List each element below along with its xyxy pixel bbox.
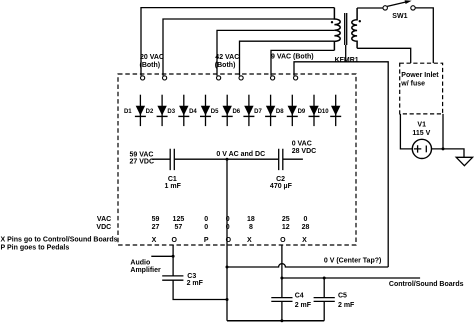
svg-text:1 mF: 1 mF bbox=[165, 183, 182, 190]
terminal 2 bbox=[163, 76, 167, 80]
wire tap4 42VAC right bbox=[240, 41, 335, 75]
junction dot C3 bottom bbox=[226, 298, 229, 301]
svg-text:0: 0 bbox=[204, 216, 208, 223]
svg-text:SW1: SW1 bbox=[392, 13, 407, 20]
wire power inlet to V1 left bbox=[400, 114, 412, 149]
capacitor C3 bbox=[162, 276, 183, 280]
wire control boards rail bbox=[282, 277, 420, 279]
switch SW1 lever arrowhead bbox=[405, 0, 412, 4]
svg-text:(Both): (Both) bbox=[140, 62, 161, 69]
svg-text:Amplifier: Amplifier bbox=[130, 267, 161, 274]
wire switch to power inlet bbox=[415, 8, 433, 63]
transformer T1 secondary polarity dot bbox=[331, 21, 333, 23]
svg-text:C4: C4 bbox=[295, 293, 304, 300]
wire V1 to ground bbox=[432, 149, 465, 157]
svg-text:470 µF: 470 µF bbox=[270, 183, 293, 190]
svg-text:0 V (Center Tap?): 0 V (Center Tap?) bbox=[324, 258, 381, 265]
svg-text:C3: C3 bbox=[187, 273, 196, 280]
junction dot 0V node bbox=[226, 158, 229, 161]
svg-text:P Pin goes to Pedals: P Pin goes to Pedals bbox=[1, 245, 70, 252]
svg-text:O: O bbox=[226, 237, 232, 244]
svg-text:D8: D8 bbox=[276, 109, 284, 115]
source V1 plus sign bbox=[414, 145, 421, 152]
svg-text:0: 0 bbox=[304, 216, 308, 223]
svg-text:VAC: VAC bbox=[97, 216, 111, 223]
wire C3 bottom to center vertical bbox=[173, 280, 227, 299]
wire 0V center tap rail with hop bbox=[227, 264, 388, 267]
svg-text:27 VDC: 27 VDC bbox=[130, 158, 155, 165]
svg-text:0 VAC: 0 VAC bbox=[292, 141, 312, 148]
terminal 5 bbox=[271, 76, 275, 80]
main dashed box bbox=[118, 74, 356, 245]
svg-text:2 mF: 2 mF bbox=[187, 280, 204, 287]
svg-text:0: 0 bbox=[204, 224, 208, 231]
junction dot bottom rail bbox=[280, 319, 283, 322]
wire C4 bottom bbox=[281, 301, 283, 320]
diode D2 bbox=[146, 95, 168, 126]
diode D10 bbox=[318, 95, 342, 126]
svg-text:P: P bbox=[204, 237, 209, 244]
diode D4 bbox=[189, 95, 211, 126]
svg-text:VDC: VDC bbox=[96, 224, 111, 231]
wire bottom rail bbox=[227, 320, 324, 322]
svg-text:KFMR1: KFMR1 bbox=[335, 57, 359, 64]
ground symbol bbox=[456, 157, 472, 165]
svg-text:0: 0 bbox=[226, 224, 230, 231]
diode D5 bbox=[211, 95, 233, 126]
transformer T1 secondary winding bbox=[334, 8, 340, 51]
junction dot V1 right bbox=[442, 147, 445, 150]
diode D6 bbox=[232, 95, 254, 126]
wire C5 top bbox=[323, 278, 325, 298]
svg-text:C1: C1 bbox=[168, 176, 177, 183]
svg-text:2 mF: 2 mF bbox=[295, 302, 312, 309]
svg-text:0 V AC and DC: 0 V AC and DC bbox=[216, 151, 265, 158]
wire audio amplifier stub bbox=[151, 255, 173, 257]
svg-text:D9: D9 bbox=[298, 109, 306, 115]
svg-text:D10: D10 bbox=[318, 109, 330, 115]
junction dot audio stub bbox=[172, 255, 175, 258]
svg-text:w/ fuse: w/ fuse bbox=[400, 80, 425, 87]
svg-text:D2: D2 bbox=[146, 109, 154, 115]
svg-text:X: X bbox=[302, 237, 307, 244]
diode D7 bbox=[254, 95, 276, 126]
svg-text:59: 59 bbox=[152, 216, 160, 223]
diode D9 bbox=[298, 95, 320, 126]
svg-text:8: 8 bbox=[249, 224, 253, 231]
svg-text:42 VAC: 42 VAC bbox=[215, 54, 239, 61]
wire tap1 20VAC left bbox=[141, 8, 334, 76]
svg-text:20 VAC: 20 VAC bbox=[140, 54, 164, 61]
svg-text:Control/Sound Boards: Control/Sound Boards bbox=[389, 281, 464, 288]
capacitor C1 bbox=[170, 149, 174, 170]
svg-text:V1: V1 bbox=[417, 122, 426, 129]
power inlet dashed box bbox=[400, 63, 443, 114]
svg-text:X: X bbox=[247, 237, 252, 244]
terminal 3 bbox=[217, 76, 221, 80]
terminal 6 bbox=[294, 76, 298, 80]
wire tap3 42VAC left bbox=[217, 30, 334, 75]
svg-text:28: 28 bbox=[302, 224, 310, 231]
svg-text:C5: C5 bbox=[338, 293, 347, 300]
svg-text:9 VAC (Both): 9 VAC (Both) bbox=[271, 53, 314, 60]
svg-text:27: 27 bbox=[152, 224, 160, 231]
svg-text:Power Inlet: Power Inlet bbox=[401, 72, 439, 79]
svg-text:O: O bbox=[280, 237, 286, 244]
svg-text:D1: D1 bbox=[124, 109, 132, 115]
transformer T1 primary winding bbox=[352, 8, 357, 48]
svg-text:(Both): (Both) bbox=[215, 62, 236, 69]
svg-text:C2: C2 bbox=[276, 176, 285, 183]
terminal 4 bbox=[239, 76, 243, 80]
transformer T1 core bbox=[345, 13, 347, 45]
wire primary bottom to power inlet bbox=[357, 48, 411, 63]
diode D8 bbox=[276, 95, 298, 126]
svg-text:125: 125 bbox=[173, 216, 185, 223]
svg-text:X: X bbox=[152, 237, 157, 244]
svg-text:O: O bbox=[171, 237, 177, 244]
svg-text:D5: D5 bbox=[211, 109, 219, 115]
wire tap5 9VAC left bbox=[271, 50, 334, 75]
svg-text:D4: D4 bbox=[189, 109, 197, 115]
wire 59VAC node to C1 bbox=[152, 158, 171, 160]
svg-text:2 mF: 2 mF bbox=[338, 302, 355, 309]
wire tap6 center-tap net bbox=[294, 62, 388, 267]
source V1 bar bbox=[425, 146, 427, 153]
capacitor C2 bbox=[279, 149, 283, 170]
svg-text:28 VDC: 28 VDC bbox=[292, 148, 317, 155]
svg-text:X Pins go to Control/Sound Boa: X Pins go to Control/Sound Boards bbox=[1, 236, 118, 243]
svg-text:57: 57 bbox=[175, 224, 183, 231]
wire C5 bottom bbox=[323, 301, 325, 320]
wire C1 to C2 bbox=[174, 158, 278, 160]
wire O-terminal to C3 bbox=[172, 245, 174, 276]
svg-text:Audio: Audio bbox=[130, 259, 150, 266]
svg-text:12: 12 bbox=[282, 224, 290, 231]
wire center 0V vertical bbox=[226, 159, 228, 321]
transformer T1 primary polarity dot bbox=[359, 20, 361, 22]
svg-text:D3: D3 bbox=[167, 109, 175, 115]
svg-text:0: 0 bbox=[226, 216, 230, 223]
diode D1 bbox=[124, 95, 146, 126]
transformer T1 center tap lead bbox=[345, 45, 347, 62]
switch SW1 lever bbox=[387, 1, 408, 6]
wire tap2 20VAC right bbox=[163, 19, 334, 76]
switch SW1 right contact bbox=[411, 6, 415, 10]
wire C2 to 0VAC 28VDC bbox=[283, 158, 303, 160]
terminal 1 bbox=[141, 76, 145, 80]
wire primary top to switch bbox=[357, 7, 383, 9]
source V1 circle bbox=[412, 139, 431, 158]
svg-text:18: 18 bbox=[247, 216, 255, 223]
junction dot rail2 left bbox=[280, 277, 283, 280]
capacitor C5 bbox=[314, 298, 335, 302]
svg-text:D7: D7 bbox=[254, 109, 262, 115]
capacitor C4 bbox=[271, 298, 292, 302]
wire power inlet to V1 right bbox=[442, 114, 444, 149]
svg-text:25: 25 bbox=[282, 216, 290, 223]
svg-text:D6: D6 bbox=[232, 109, 240, 115]
junction dot C5 top bbox=[323, 277, 326, 280]
switch SW1 left contact bbox=[383, 6, 387, 10]
diode D3 bbox=[167, 95, 189, 126]
wire O-terminal through hop to C4 bbox=[281, 245, 283, 298]
junction dot rail1 left bbox=[226, 266, 229, 269]
svg-text:115 V: 115 V bbox=[412, 130, 430, 137]
